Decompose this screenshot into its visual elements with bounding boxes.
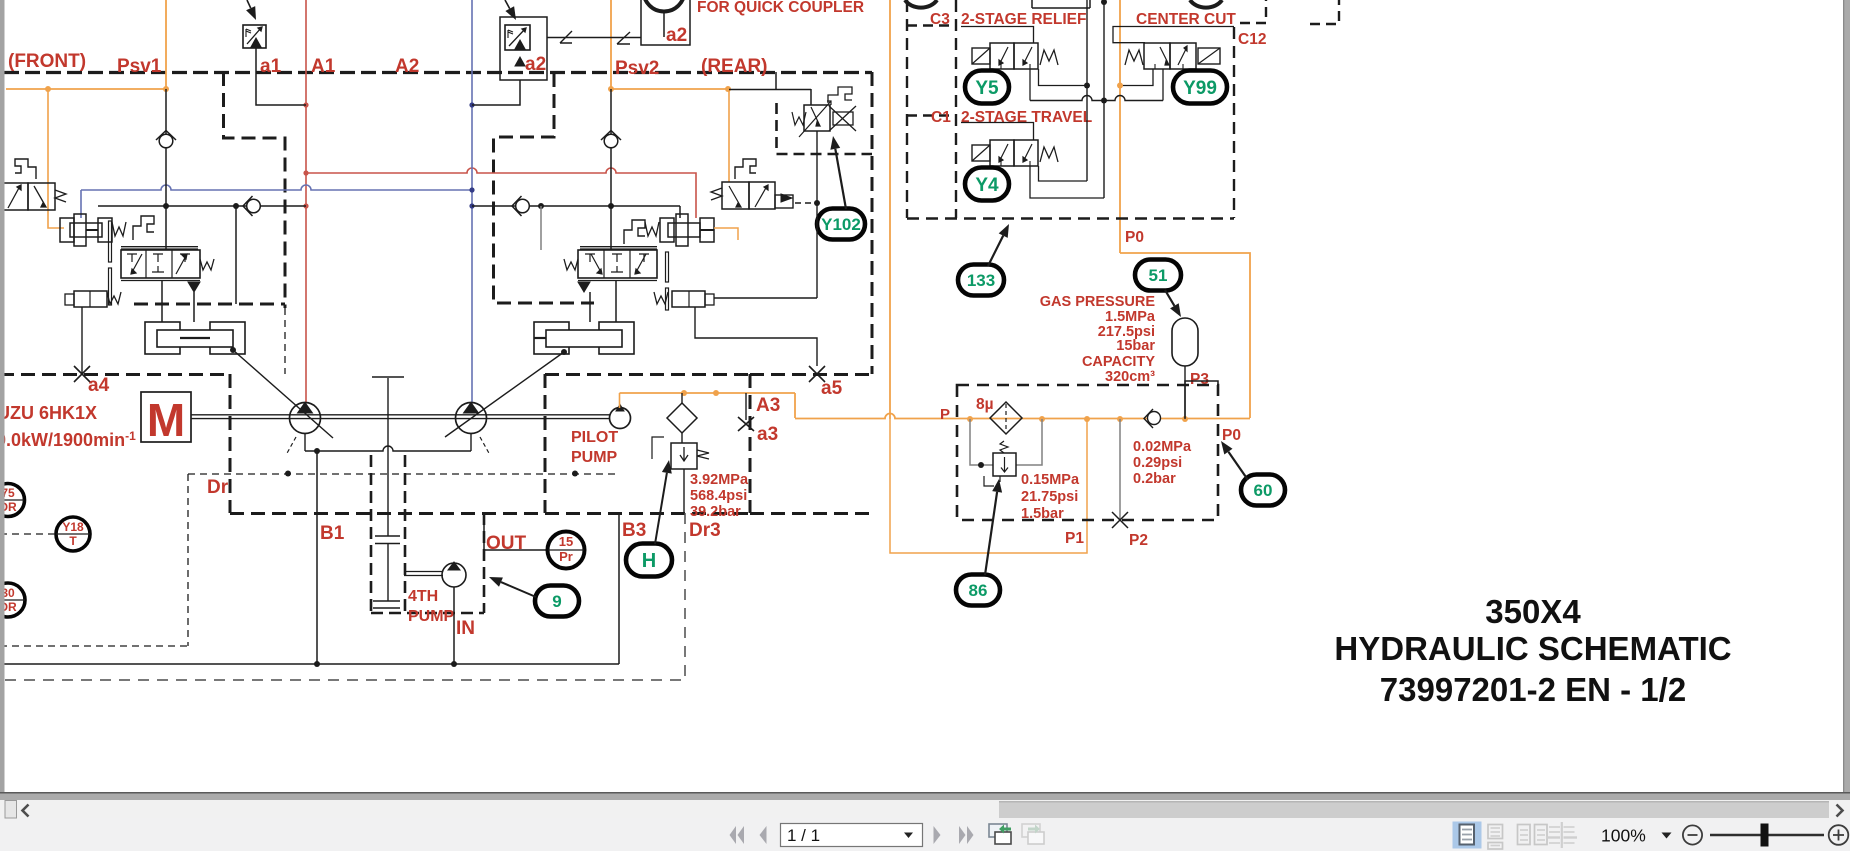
pump 4th box (370, 455, 373, 613)
wire Y99 links (1113, 27, 1234, 43)
valve front main spool (121, 250, 200, 278)
check valve Psv2 (604, 134, 618, 148)
wire accumulator drop P3 (1184, 366, 1186, 419)
wire rear bus drops (540, 206, 542, 250)
oval label Y4 (965, 168, 1009, 201)
oval label Y99 (1173, 71, 1227, 104)
shaft center vertical (387, 378, 389, 536)
valve travel relief (804, 105, 830, 131)
svg-text:FOR QUICK COUPLER: FOR QUICK COUPLER (697, 0, 864, 16)
wire rear swash diagonal (445, 352, 564, 437)
wire rear valve to actuator (615, 281, 617, 322)
svg-text:P1: P1 (1065, 530, 1084, 547)
actuator front swash piston (145, 322, 180, 354)
port a5 plug X (809, 366, 825, 382)
wire Psv2 riser black (610, 89, 612, 250)
svg-text:C1: C1 (931, 109, 951, 126)
wire blue drop to pilot valve (80, 190, 82, 218)
wire P-box dashed (957, 385, 1218, 520)
port travel relief X box (833, 112, 853, 125)
wire drain dash y474 (188, 473, 620, 475)
node orange junctions (45, 86, 51, 92)
zoom-in button (1829, 825, 1849, 845)
pump main 2 (456, 403, 487, 434)
label W front reducer (112, 222, 126, 236)
wire riser x1104 (1103, 2, 1105, 198)
pump 4th circle (442, 563, 466, 587)
wire a5 dashed border (750, 373, 872, 376)
valve front spool drain triangle (188, 282, 200, 292)
check arrow 1 on coupler line (560, 31, 572, 43)
layout icon: single page (selected) (1453, 822, 1482, 849)
svg-text:0.2bar: 0.2bar (1133, 471, 1176, 487)
wire quick coupler pilot line (547, 37, 641, 39)
oval label 60 (1241, 475, 1285, 506)
valve a1 proportional reducer (243, 25, 266, 48)
svg-text:CENTER CUT: CENTER CUT (1136, 11, 1236, 28)
check arrow 2 on coupler line (617, 32, 630, 44)
svg-text:1.5MPa: 1.5MPa (1105, 309, 1156, 325)
port a3 plug X (745, 393, 747, 420)
oval label Y5 (965, 71, 1009, 104)
svg-text:0.15MPa: 0.15MPa (1021, 472, 1080, 488)
wire tank return line (0, 663, 619, 665)
wire C1 corner dashed (907, 114, 956, 116)
svg-text:Dr: Dr (207, 477, 229, 498)
oval label 51 (1135, 260, 1181, 291)
arrow 133 pointer (988, 236, 1003, 266)
wire Psv1 riser black (165, 89, 167, 250)
gauge quick coupler (644, 0, 685, 12)
wire Dr3 dashed drop (0, 513, 685, 680)
wire B3 drop (618, 513, 620, 664)
wire pilot pump outlet (619, 393, 621, 408)
valve front actuation bars (109, 221, 112, 262)
node red junctions (303, 102, 308, 107)
svg-text:320cm³: 320cm³ (1105, 369, 1155, 385)
oval label 9 (535, 586, 579, 617)
wire C-block right dashed (1233, 27, 1235, 218)
shaft drive line (191, 414, 610, 416)
valve rear spool spring (564, 259, 578, 270)
svg-text:(FRONT): (FRONT) (8, 51, 86, 72)
wire rear valve drain to a5 (695, 307, 817, 366)
scrollbar corner box (5, 801, 17, 819)
valve front pilot 3way (0, 183, 28, 210)
fragment top oval 1 (905, 0, 937, 8)
svg-text:0.02MPa: 0.02MPa (1133, 439, 1192, 455)
svg-text:a3: a3 (757, 424, 778, 445)
wire front-section dashed border (224, 72, 286, 308)
svg-text:HYDRAULIC SCHEMATIC: HYDRAULIC SCHEMATIC (1334, 630, 1731, 667)
svg-text:PUMP: PUMP (408, 608, 455, 625)
svg-text:Y99: Y99 (1183, 78, 1217, 99)
valve rear spool drain triangle (578, 282, 590, 292)
svg-text:Y5: Y5 (975, 78, 999, 99)
wire B3 border y513 (750, 512, 872, 515)
wire B1 drop (316, 451, 318, 664)
valve pilot relief 3.92MPa (671, 443, 697, 469)
wire pump-box left border (229, 374, 232, 513)
layout icon: two pages (disabled) (1518, 825, 1548, 845)
node rear bus junctions (538, 203, 544, 209)
pilot stair symbol rear2 (624, 220, 645, 244)
svg-text:OUT: OUT (486, 533, 527, 554)
svg-text:9: 9 (552, 592, 561, 611)
node blue junctions (469, 102, 474, 107)
gear coupling bottom (373, 600, 400, 602)
toolbar background (0, 819, 1850, 851)
check valve Psv1 (159, 134, 173, 148)
wire rear-section dashed border (494, 73, 595, 303)
wire orange Psv2 drop (610, 0, 612, 89)
port a4 plug X (74, 366, 90, 382)
wire orange front feed (6, 88, 166, 90)
svg-text:P0: P0 (1125, 229, 1144, 246)
wire front swash diagonal (233, 350, 333, 438)
valve a2 proportional reducer (500, 17, 547, 80)
port circle 30 DR (0, 583, 25, 617)
svg-text:(REAR): (REAR) (701, 56, 768, 77)
oval label H (626, 544, 672, 577)
wire pump case drain bus (305, 446, 471, 451)
node orange dot y85 (1117, 83, 1123, 89)
valve rear compensator (672, 291, 705, 307)
wire red A1 riser (305, 0, 307, 403)
arrow Y102 pointer (835, 149, 846, 209)
wire blue A2 riser (471, 0, 473, 403)
svg-text:15bar: 15bar (1116, 338, 1155, 354)
scrollbar right arrow (1837, 805, 1843, 817)
motor M box (141, 392, 191, 442)
wire a1 to A1 (256, 48, 306, 105)
port circle 15 Pr (548, 532, 585, 569)
filter 8u diamond (990, 402, 1022, 434)
svg-text:a2: a2 (666, 25, 687, 46)
valve rear swash reducer (660, 218, 674, 242)
svg-text:B3: B3 (622, 520, 646, 541)
right vertical scrollbar strip (1843, 0, 1850, 800)
oval label 133 (958, 265, 1004, 296)
previous-view icon (989, 824, 1011, 844)
arrow 86 pointer (985, 492, 997, 575)
wire P0 solid corner (1185, 381, 1218, 418)
pilot stair symbol front2 (133, 216, 154, 240)
valve front spool spring (200, 259, 214, 270)
prev-page button (disabled) (760, 826, 767, 844)
oval label 86 (956, 575, 1000, 606)
wire rear-section dashed border right (871, 72, 874, 374)
svg-text:15: 15 (559, 534, 573, 549)
check valve P2 line (1148, 412, 1161, 425)
svg-text:Y4: Y4 (975, 175, 999, 196)
wire travel relief top link (729, 89, 811, 91)
wire a4 dashed border (0, 373, 230, 376)
port circle Y18 T (56, 517, 90, 551)
wire riser x1087 (1086, 0, 1088, 181)
svg-text:Dr3: Dr3 (689, 520, 721, 541)
valve pilot reducer 0.15MPa (993, 453, 1016, 476)
fragment top box (1031, 0, 1033, 8)
valve front swash reducer (60, 218, 74, 242)
svg-text:A3: A3 (756, 395, 780, 416)
port circle 75 DR (0, 484, 25, 517)
check valve front bus (247, 199, 261, 213)
svg-text:1 / 1: 1 / 1 (787, 826, 820, 845)
first-page button (disabled) (730, 826, 745, 844)
wire travel relief down (816, 131, 818, 298)
svg-text:2-STAGE TRAVEL: 2-STAGE TRAVEL (961, 109, 1092, 126)
wire orange P0 corner (1120, 253, 1250, 418)
horizontal scrollbar row (0, 800, 1850, 819)
wire drain dash Dr box (187, 474, 189, 646)
zoom slider thumb (1761, 824, 1769, 847)
svg-text:CAPACITY: CAPACITY (1082, 354, 1155, 370)
svg-text:8µ: 8µ (976, 396, 994, 413)
layout icon: dual continuous (disabled) (1547, 822, 1578, 848)
next-view icon (disabled) (1022, 824, 1044, 844)
wire OUT line (483, 513, 485, 550)
wire rear pilot bus y206 (472, 205, 680, 207)
svg-text:H: H (642, 550, 656, 572)
node rear swash dot (561, 349, 567, 355)
wire pump box bottom y513 (230, 512, 545, 515)
svg-text:73997201-2 EN - 1/2: 73997201-2 EN - 1/2 (1380, 671, 1686, 708)
wire C3 corner dashed (907, 24, 956, 26)
scrollbar thumb (999, 801, 1829, 818)
wire front pilot bus y206 (98, 205, 306, 207)
svg-text:39.2bar: 39.2bar (690, 504, 741, 520)
svg-text:a5: a5 (821, 378, 843, 399)
valve rear main spool (578, 250, 657, 278)
label W travel relief (792, 112, 806, 125)
svg-text:P2: P2 (1129, 532, 1148, 549)
valve Y4 solenoid (990, 140, 1014, 166)
svg-text:B1: B1 (320, 523, 345, 544)
svg-text:IN: IN (456, 618, 475, 639)
svg-text:Y18: Y18 (62, 520, 84, 534)
svg-text:4TH: 4TH (408, 588, 438, 605)
svg-text:A2: A2 (395, 56, 419, 77)
wire red cross line y173 (306, 168, 696, 218)
wire rear compensator link (714, 297, 817, 299)
valve front compensator (74, 291, 107, 307)
svg-text:T: T (69, 534, 77, 548)
wire pump2 drain dash (480, 437, 490, 455)
valve Y102 pilot 3way (722, 182, 749, 209)
wire Y102 dash link (795, 202, 817, 204)
svg-text:Y102: Y102 (821, 215, 861, 234)
svg-text:Psv1: Psv1 (117, 56, 162, 77)
svg-text:0.0kW/1900min-1: 0.0kW/1900min-1 (0, 429, 136, 450)
valve a1 output arrow (251, 38, 261, 47)
wire orange bypass box (890, 419, 1087, 553)
wire P2 drop (1119, 419, 1121, 520)
pilot stair travel relief (828, 87, 852, 103)
check valve rear bus (516, 199, 530, 213)
wire C-block outer left dashed (906, 0, 908, 218)
svg-text:UZU 6HK1X: UZU 6HK1X (0, 403, 97, 423)
svg-text:A1: A1 (311, 56, 336, 77)
wire pilot-bank dashed border y72 (4, 71, 872, 74)
wire Y5 links (961, 27, 1034, 44)
gray band below page (0, 794, 1850, 801)
wire bus y100 (1030, 96, 1163, 101)
wire pilot relief drain (683, 469, 685, 513)
wire C12 corner dashed (1240, 0, 1266, 23)
scrollbar left arrow (23, 805, 29, 817)
wire 4th pump suction (453, 587, 455, 664)
pump pilot (610, 408, 631, 429)
arrow 51 pointer (1165, 290, 1174, 306)
valve Y5 solenoid (990, 43, 1014, 69)
svg-text:GAS PRESSURE: GAS PRESSURE (1040, 294, 1156, 310)
pilot stair symbol rear valve (735, 159, 756, 179)
left window edge strip (0, 0, 5, 818)
wire orange front branch down (48, 89, 64, 228)
accumulator shell (1172, 318, 1198, 366)
svg-text:350X4: 350X4 (1485, 593, 1581, 630)
arrow 60 pointer (1228, 452, 1248, 480)
svg-text:Psv2: Psv2 (615, 58, 659, 79)
node orange P dots (967, 416, 973, 422)
svg-text:P: P (940, 406, 950, 423)
label W rear reducer (645, 222, 659, 236)
svg-text:568.4psi: 568.4psi (690, 488, 747, 504)
svg-text:C3: C3 (930, 11, 950, 28)
wire rear reducer orange tail (714, 228, 738, 240)
fragment top oval 2 (1190, 0, 1222, 8)
wire travel relief dashed box (777, 103, 873, 154)
svg-text:a4: a4 (88, 375, 110, 396)
wire drain dash vertical x284 (284, 308, 286, 374)
arrow H pointer (655, 473, 667, 544)
svg-text:M: M (147, 394, 185, 446)
valve Y99 solenoid (1144, 43, 1170, 69)
pilot stair symbol front (15, 159, 36, 179)
arrow 9 pointer (501, 582, 536, 597)
wire front valve to actuator (161, 281, 163, 322)
wire front compensator drain (81, 307, 83, 374)
svg-text:3.92MPa: 3.92MPa (690, 472, 749, 488)
actuator rear swash piston (534, 322, 569, 354)
page number input (781, 824, 923, 847)
wire Y18 dashed link (0, 533, 56, 535)
svg-text:86: 86 (969, 581, 988, 600)
svg-text:PUMP: PUMP (571, 449, 618, 466)
svg-text:1.5bar: 1.5bar (1021, 506, 1064, 522)
svg-text:100%: 100% (1601, 826, 1646, 846)
wire orange rear branch down (728, 89, 730, 182)
wire blue cross line y190 (81, 185, 472, 190)
svg-text:a2: a2 (525, 54, 546, 75)
valve rear actuation bars (666, 252, 669, 282)
filter pilot diamond (667, 403, 697, 433)
svg-text:2-STAGE RELIEF: 2-STAGE RELIEF (961, 11, 1086, 28)
svg-text:Pr: Pr (559, 549, 573, 564)
wire filter loop right (1016, 419, 1042, 465)
port P2 plug X (1112, 512, 1128, 528)
wire front box bottom dashed (134, 303, 285, 306)
layout icon: continuous (disabled) (1488, 825, 1503, 850)
svg-text:C12: C12 (1238, 31, 1266, 48)
wire orange Psv1 drop (165, 0, 167, 89)
pump main 1 (290, 403, 321, 434)
wire pump1 drain dash (286, 437, 296, 455)
wire orange rear feed (611, 88, 728, 90)
svg-text:60: 60 (1254, 481, 1273, 500)
svg-text:133: 133 (967, 271, 995, 290)
wire orange pilot supply (620, 392, 796, 394)
gear coupling top (375, 535, 400, 537)
wire pilot box borders (544, 374, 547, 513)
wire Y4 links (961, 123, 1034, 141)
zoom-out button (1683, 825, 1702, 844)
oval label Y102 (817, 209, 865, 240)
svg-text:0.29psi: 0.29psi (1133, 455, 1182, 471)
last-page button (disabled) (959, 826, 974, 844)
node front bus junctions (163, 203, 169, 209)
svg-text:21.75psi: 21.75psi (1021, 489, 1078, 505)
svg-text:P0: P0 (1222, 427, 1241, 444)
wire front valve stub (235, 206, 237, 304)
next-page button (disabled) (934, 826, 941, 844)
wire orange P0 main riser (889, 0, 891, 419)
wire C-block inner left dashed (955, 0, 957, 218)
svg-text:a1: a1 (260, 56, 282, 77)
wire C-block bottom dashed (907, 217, 1234, 219)
wire a2 to A2 riser (472, 80, 520, 105)
page bottom border (0, 792, 1850, 794)
zoom slider track (1710, 834, 1824, 836)
pump 4th shaft (404, 571, 443, 573)
svg-text:51: 51 (1149, 266, 1168, 285)
wire C12 outer corner dashed (1310, 0, 1339, 24)
wire filter loop left (970, 419, 993, 465)
svg-text:PILOT: PILOT (571, 429, 618, 446)
